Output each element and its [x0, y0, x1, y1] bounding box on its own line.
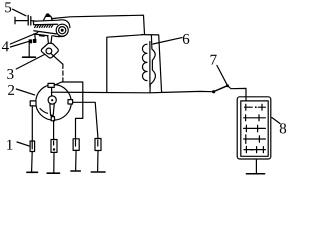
breaker arm	[34, 31, 65, 40]
cam roller	[56, 24, 68, 36]
pivot post	[48, 36, 52, 43]
battery cell row 2	[244, 115, 266, 121]
condenser C	[41, 43, 58, 58]
wire: distributor bottom to plug 2	[53, 121, 55, 140]
spark plug 1	[30, 141, 34, 152]
ground 4	[91, 151, 105, 173]
condenser lead to breaker wire	[51, 53, 63, 81]
battery inner case	[241, 101, 268, 156]
battery cell row 1	[245, 104, 266, 110]
breaker terminal nut	[43, 14, 52, 21]
wire: right terminal to plug 4	[73, 102, 98, 138]
battery outer case	[237, 97, 271, 159]
insulator hatching	[35, 25, 54, 28]
wire: left terminal to plug 1	[31, 106, 33, 141]
ground 1	[27, 152, 38, 173]
switch contact	[212, 90, 215, 93]
label 5	[5, 2, 26, 15]
spark gap tester	[15, 15, 36, 25]
spark plug 4	[95, 139, 101, 151]
coil feed wire	[52, 15, 145, 34]
label 2	[8, 85, 35, 95]
ignition coil box	[107, 35, 162, 93]
distributor top terminal	[48, 83, 54, 87]
battery cell row 3	[244, 125, 266, 131]
label 3	[7, 55, 44, 80]
distributor body	[36, 85, 72, 121]
spark plug 2	[51, 140, 57, 153]
battery ground wire	[246, 160, 264, 174]
main LT wire to switch	[51, 91, 212, 92]
label 7	[211, 55, 227, 85]
label 1	[7, 140, 30, 150]
contact points block	[29, 39, 37, 43]
rotor	[48, 96, 56, 121]
spark plug 3	[73, 139, 79, 151]
battery cell row 5	[244, 146, 265, 152]
wire: switch to battery	[228, 86, 246, 101]
rotor center electrode	[51, 87, 53, 96]
ground 3	[71, 150, 80, 171]
coil primary loops	[142, 44, 147, 80]
ground under points	[23, 44, 36, 58]
label 8	[272, 118, 286, 134]
label 6	[153, 34, 189, 44]
breaker body bar	[33, 20, 70, 28]
wire: distributor top terminal to junction	[55, 82, 83, 139]
distributor left terminal	[30, 101, 36, 106]
coil core	[149, 42, 151, 88]
switch blade	[214, 84, 229, 91]
label 4	[2, 33, 38, 52]
coil secondary divider	[150, 35, 155, 92]
ground 2	[47, 152, 59, 173]
battery cell row 4	[244, 135, 266, 144]
rotor arc detail	[40, 109, 48, 114]
distributor right terminal	[68, 100, 73, 104]
